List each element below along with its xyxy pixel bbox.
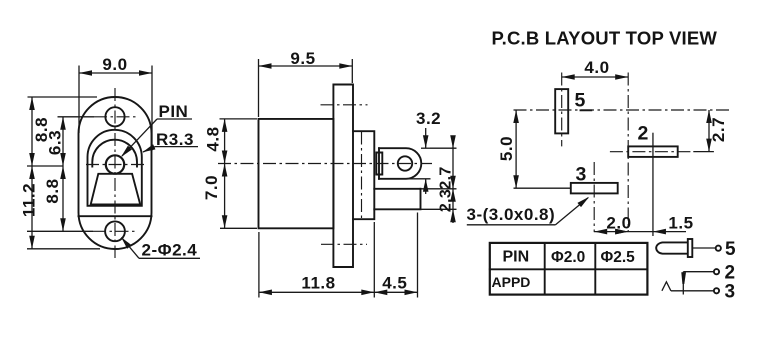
svg-text:11.2: 11.2 [20,183,39,217]
svg-text:7.0: 7.0 [202,175,221,200]
flange plate with tabs [333,85,353,268]
pad 5 vertical centerline [561,73,563,147]
svg-text:1.5: 1.5 [668,214,693,233]
svg-text:3-(3.0x0.8): 3-(3.0x0.8) [467,205,556,224]
plug barrel pin 5 [656,239,692,257]
horizontal centerline bottom hole [93,230,138,232]
switch contact zigzag [662,282,671,291]
switch wiper vertical [681,272,686,295]
dimension 2.7 pcb [706,110,728,152]
mounting hole bottom [105,221,125,241]
svg-text:PIN: PIN [503,249,530,266]
svg-text:4.0: 4.0 [584,58,609,77]
dimension 4.8 / 7.0 (line x=224.6) [202,119,257,228]
svg-text:Φ2.5: Φ2.5 [601,249,636,266]
terminal hole circle [398,156,412,170]
center pin circle [106,155,124,173]
label 2-dia2.4 with leader [119,235,200,259]
arch frame R3.3 [88,130,142,206]
solder lug lines [374,189,420,210]
pin 3 lead and terminal [671,282,735,303]
extension lines left side [27,97,100,249]
svg-text:2.7: 2.7 [709,117,728,142]
pad 5 [555,89,568,133]
dimension 2.7 / 2.3 (line x=453) [421,135,457,223]
svg-text:PIN: PIN [159,102,189,121]
front view body outline (stadium) [79,97,152,249]
label PIN with leader [119,102,192,159]
pad 3 label [576,163,587,185]
vertical centerline front view [114,88,116,258]
pad 5 label [575,90,592,112]
dimension 9.5 [259,49,353,117]
svg-text:R3.3: R3.3 [156,130,194,149]
pad 2 [628,146,678,157]
body rectangle [259,119,334,228]
svg-text:5.0: 5.0 [497,136,516,161]
dimension 6.3 and 8.8 bottom (line x=63) [43,117,66,232]
svg-text:3.2: 3.2 [416,109,441,128]
svg-text:Φ2.0: Φ2.0 [551,249,585,266]
pin 5 lead and terminal [692,239,736,260]
svg-text:2.3: 2.3 [438,189,455,212]
slot centerline vertical [361,132,363,220]
main centerline side view [218,163,432,165]
svg-text:5: 5 [725,239,736,260]
title [492,28,718,49]
svg-text:4.5: 4.5 [382,274,407,293]
horizontal centerline pin [86,164,145,166]
svg-text:8.8: 8.8 [43,178,62,203]
svg-text:9.5: 9.5 [290,49,315,68]
svg-text:6.3: 6.3 [46,130,65,155]
pad 2 horizontal centerline [610,151,714,153]
slot centerline bottom [321,243,367,245]
dimension 11.8 / 4.5 [259,213,418,298]
terminal base bracket [376,153,382,175]
label R3.3 with leader [141,130,198,155]
dimension 9.0 [79,55,152,151]
pin 2 lead and terminal [683,263,735,284]
dimension 2.0 / 1.5 [594,133,694,236]
dimension 8.8 top and 11.2 (line x=32) [20,97,52,249]
slot centerline top [321,104,368,106]
mounting hole top [105,107,124,126]
dimension 4.0 [562,58,629,80]
svg-text:APPD: APPD [492,274,531,290]
pin table [490,243,648,295]
pad 3 [571,183,618,194]
svg-text:2.0: 2.0 [606,214,631,233]
svg-text:2: 2 [725,263,736,284]
flange step (col2) [353,131,374,219]
contact trapezoid [91,174,141,205]
inner arch arc [92,140,137,167]
svg-text:2: 2 [638,122,649,144]
svg-text:4.8: 4.8 [204,126,223,151]
main horizontal centerline pcb [514,109,730,111]
label 3-(3.0x0.8) with leader [467,195,591,225]
svg-text:3: 3 [576,163,587,185]
pad 2 label [638,122,649,144]
svg-text:P.C.B LAYOUT TOP VIEW: P.C.B LAYOUT TOP VIEW [492,28,718,49]
dimension 3.2 (line x=425.7) [400,109,441,194]
pad 3 vertical centerline [593,162,595,232]
svg-text:2.7: 2.7 [438,166,455,189]
svg-text:9.0: 9.0 [102,55,127,74]
svg-text:11.8: 11.8 [301,274,335,293]
svg-text:5: 5 [575,90,586,112]
horizontal centerline top hole [94,116,137,118]
svg-text:3: 3 [725,282,736,303]
dimension 5.0 [497,110,571,188]
terminal pin (bullet) [379,148,421,179]
main vertical centerline pcb [627,73,629,232]
svg-text:2-Φ2.4: 2-Φ2.4 [142,241,198,260]
